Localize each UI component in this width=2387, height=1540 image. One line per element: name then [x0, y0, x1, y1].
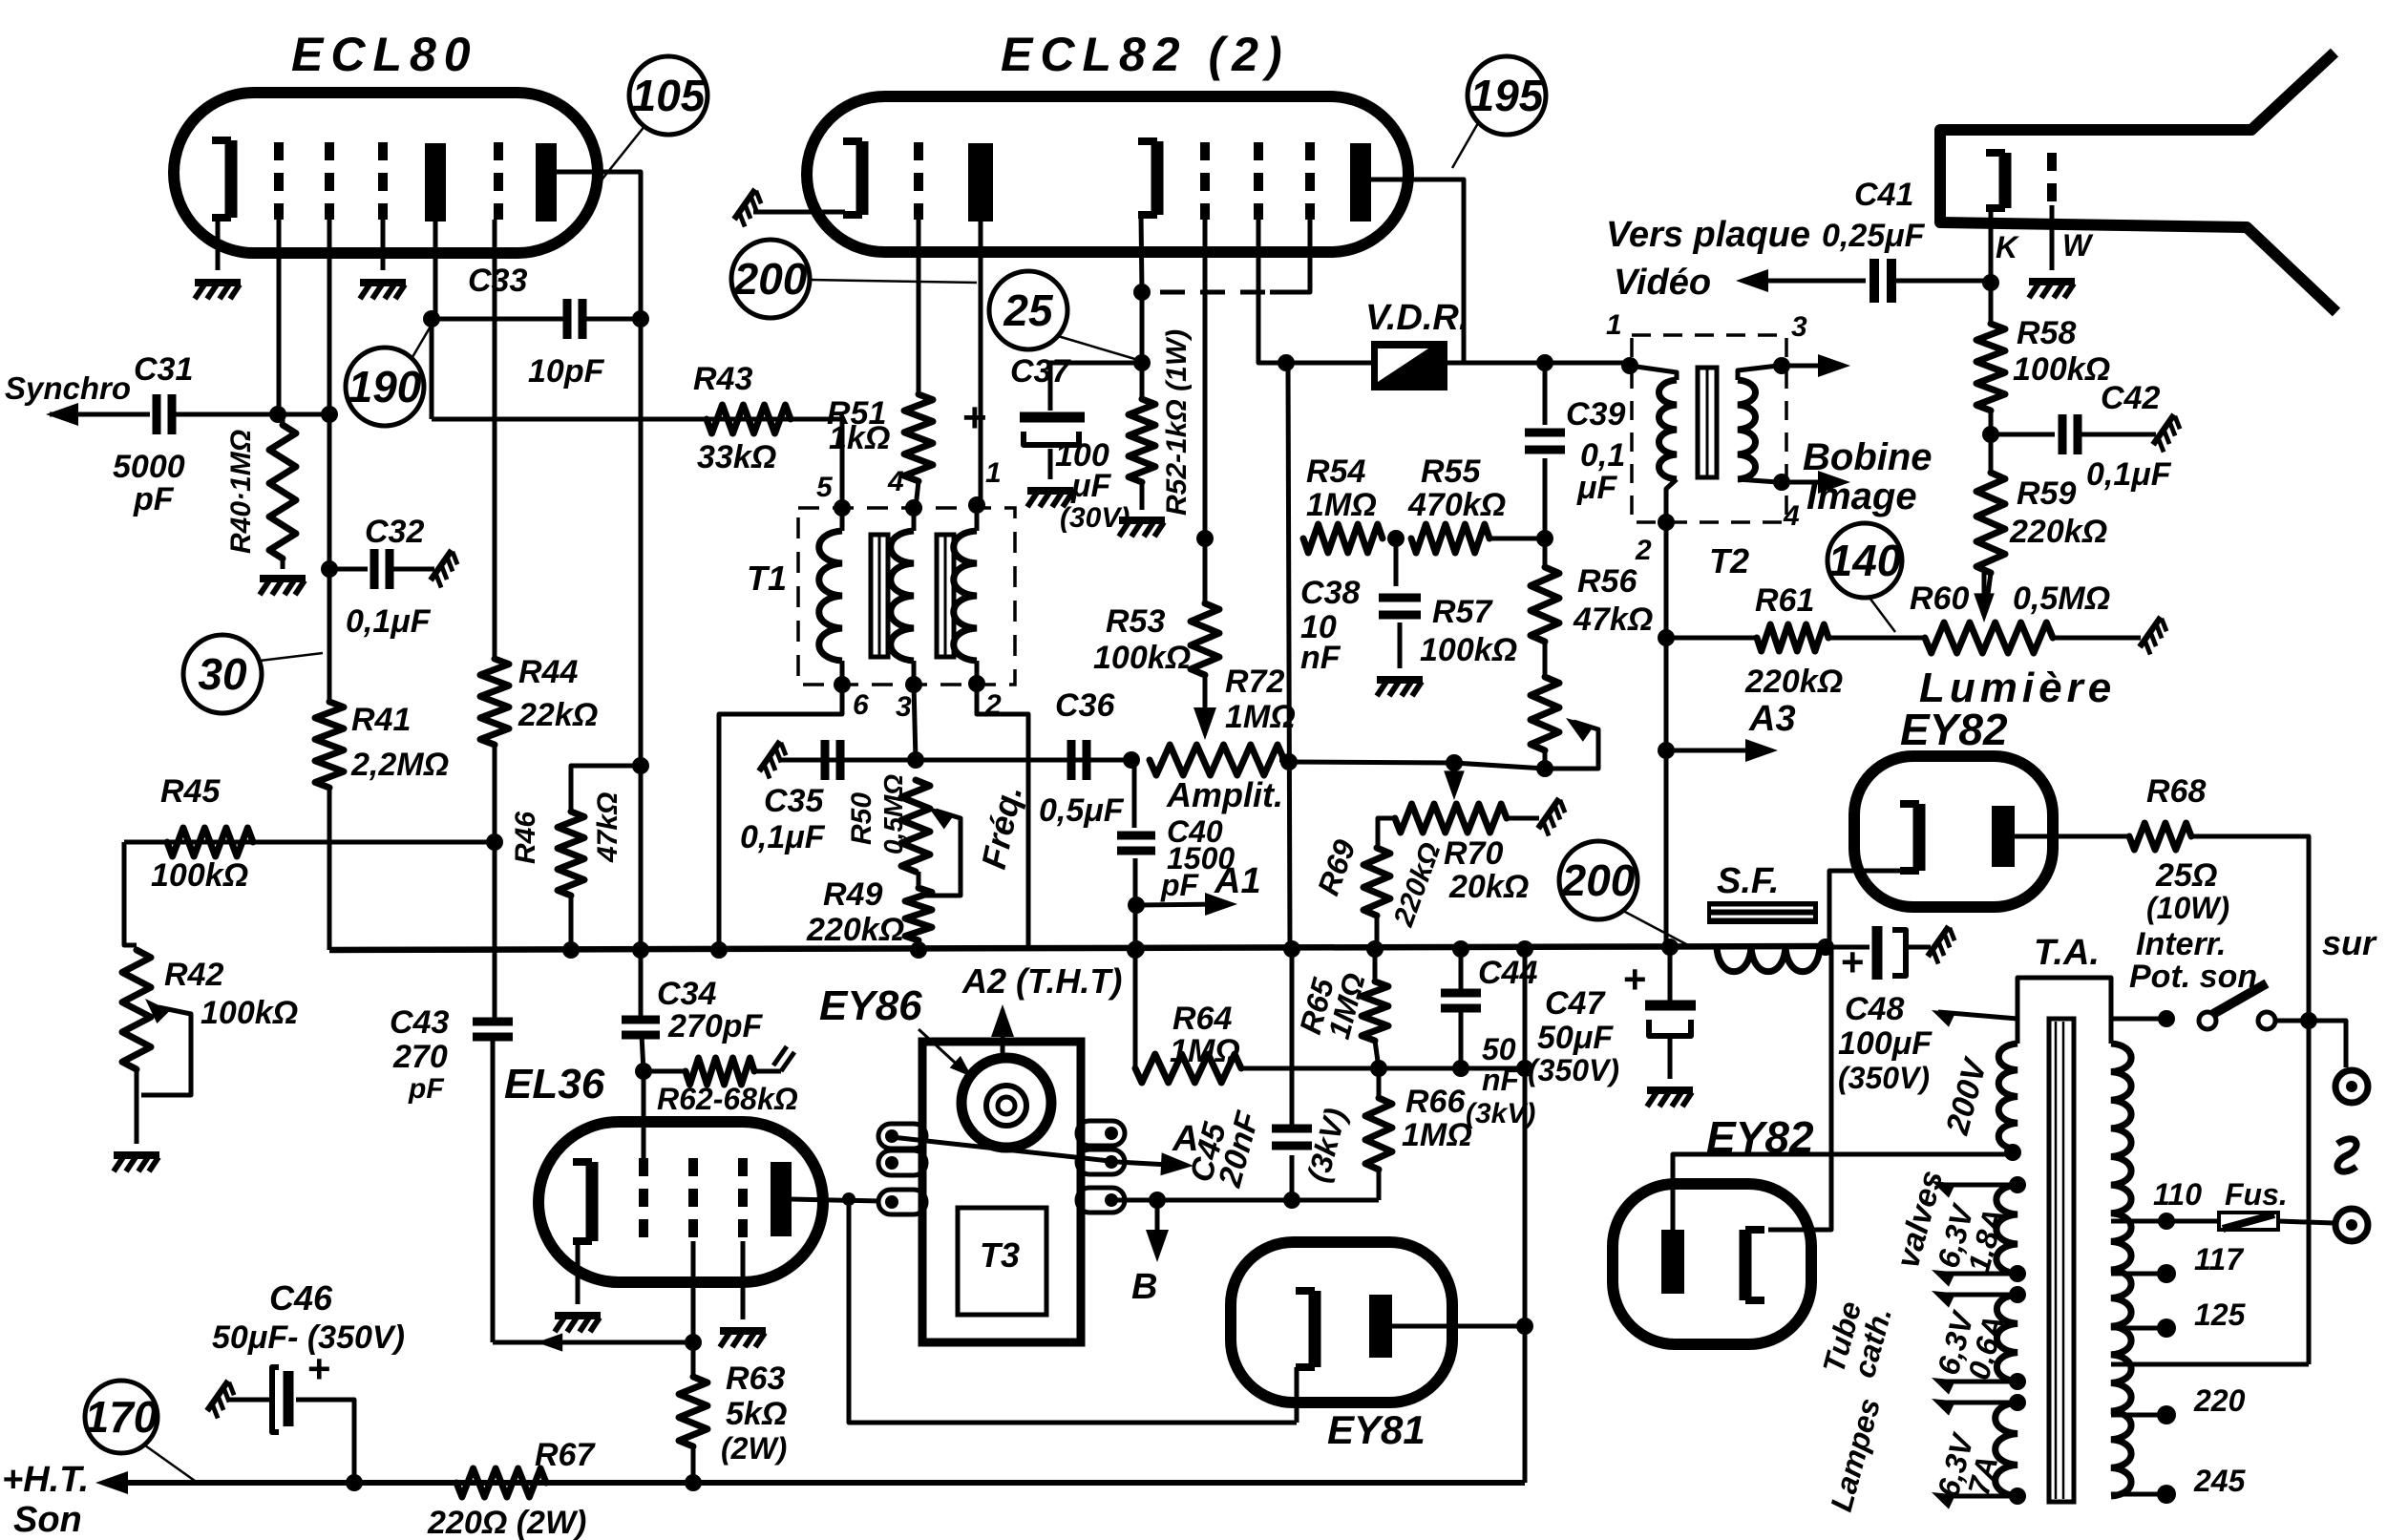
svg-text:R44: R44 [518, 654, 578, 690]
winding 200V [1998, 1044, 2017, 1150]
svg-text:Interr.: Interr. [2136, 926, 2226, 962]
svg-text:0,1: 0,1 [1580, 437, 1625, 474]
wire pot node to R70 rail [1289, 762, 1454, 763]
wire C40 bottom [1133, 858, 1138, 950]
tube V4 EY82 envelope [1613, 1184, 1811, 1344]
resistor R51 [904, 394, 933, 481]
svg-text:1kΩ: 1kΩ [829, 420, 890, 456]
svg-text:117: 117 [2194, 1242, 2245, 1276]
svg-text:Fus.: Fus. [2225, 1177, 2288, 1212]
svg-text:140: 140 [1828, 536, 1902, 585]
arrow T2-4 [1782, 471, 1850, 494]
label C34 [657, 976, 716, 1012]
wire R41 top [327, 569, 332, 702]
wire VDR right [1447, 361, 1630, 366]
node T1-3 [905, 676, 922, 693]
svg-text:R40·1MΩ: R40·1MΩ [225, 430, 257, 554]
svg-text:220kΩ: 220kΩ [806, 912, 904, 948]
wire R59 to R60 arrow [1987, 573, 1991, 601]
node T1-6 bus [710, 941, 728, 959]
ground (ECL80 g3) [360, 283, 406, 299]
wire a1 pin down [979, 222, 983, 503]
wire R64 left [1133, 949, 1138, 1068]
wire V7 g2 pin [691, 1241, 696, 1342]
label T3 [980, 1235, 1020, 1275]
label 6,3V 7A [1931, 1428, 2004, 1500]
label C44 [1478, 955, 1537, 991]
capacitor C40 [1117, 835, 1155, 851]
svg-text:T3: T3 [980, 1235, 1020, 1275]
svg-text:1: 1 [1606, 309, 1622, 341]
svg-text:R49: R49 [823, 876, 882, 913]
svg-text:47kΩ: 47kΩ [592, 792, 623, 863]
wire C39 top lead [1543, 363, 1548, 425]
wire C42 lead [1991, 432, 2055, 437]
svg-text:C44: C44 [1478, 955, 1537, 991]
label K [1996, 230, 2020, 264]
svg-text:270: 270 [392, 1039, 448, 1075]
wire Synchro arrow [50, 412, 150, 417]
label Vers plaque [1606, 215, 1810, 255]
svg-text:Bobine: Bobine [1803, 436, 1933, 478]
wire R61 lead [1666, 636, 1757, 641]
svg-text:R58: R58 [2017, 315, 2076, 351]
wire right rail [1523, 949, 1528, 1483]
node R46 top [632, 757, 649, 774]
wire C46 right [296, 1400, 354, 1483]
wire R43 to T1-5 [840, 419, 845, 508]
winding heater lampes [1996, 1403, 2017, 1496]
tube V7 grid g1 [639, 1158, 648, 1241]
wire C39 to R56 [1543, 458, 1548, 567]
wire tap110 [2111, 1219, 2166, 1224]
pointer 30 [260, 653, 323, 661]
wire a2 to VDR node [1462, 292, 1467, 363]
svg-text:+: + [307, 1346, 331, 1391]
svg-text:nF: nF [1482, 1063, 1521, 1097]
tube V2 cathode k1 [843, 141, 862, 215]
tube V6 EY81 envelope [1231, 1242, 1452, 1403]
label R67 [535, 1437, 596, 1473]
label C43 [390, 1004, 449, 1041]
circle node 170 [85, 1381, 158, 1453]
wire C43 to R63 node [493, 1340, 693, 1345]
wire dashed g4 link [1151, 290, 1265, 295]
label EY81 [1327, 1407, 1426, 1452]
node R46 bus [562, 941, 580, 959]
label C46 value [212, 1319, 405, 1356]
resistor R53 [1191, 603, 1219, 675]
svg-text:EY81: EY81 [1327, 1407, 1426, 1452]
label C46 plus [307, 1346, 331, 1391]
svg-text:200: 200 [733, 254, 808, 304]
svg-text:A3: A3 [1748, 699, 1796, 739]
wire R61-R60 link [1828, 636, 1925, 641]
svg-text:0,5MΩ: 0,5MΩ [2013, 580, 2110, 617]
node R64 bus [1128, 940, 1145, 958]
label R59 [2017, 475, 2076, 512]
capacitor C31 [157, 394, 172, 434]
node C37/R52 [1133, 354, 1151, 371]
label T2 pin4 [1783, 500, 1800, 532]
wire y1119 to rail [1379, 1066, 1525, 1071]
node C33 right [632, 310, 649, 327]
tube V2 anode a2 [1350, 143, 1371, 222]
node R58/R59 [1982, 426, 1999, 443]
label R50 value [878, 774, 908, 854]
resistor R43 [707, 405, 791, 433]
wire R46 bottom [569, 896, 574, 950]
wire T2-2 down [1664, 522, 1669, 947]
label R51 [827, 395, 886, 432]
wire V6 cathode down [1295, 1367, 1299, 1423]
resistor R52 [1129, 363, 1155, 482]
svg-text:C38: C38 [1300, 575, 1360, 611]
resistor R64 [1135, 1054, 1241, 1083]
wire R56 to R57 [1543, 642, 1548, 677]
node R70 arrow [1446, 754, 1463, 771]
node hl bot [2009, 1487, 2026, 1505]
label Bobine Image [1803, 436, 1933, 517]
svg-text:C32: C32 [365, 514, 424, 550]
wire R45 rail [124, 840, 495, 845]
svg-text:R52-1kΩ (1W): R52-1kΩ (1W) [1161, 329, 1193, 516]
CRT cathode pin [1989, 208, 1994, 280]
node tap125 [2157, 1318, 2176, 1338]
wire V7 g3 pin [741, 1241, 746, 1319]
label R43 [693, 361, 752, 397]
wire R55 right [1489, 537, 1545, 541]
label C48 [1845, 991, 1904, 1027]
wire R66 bottom link [1292, 1198, 1379, 1203]
node R63 bus [685, 1474, 702, 1491]
svg-text:0,5MΩ: 0,5MΩ [878, 774, 908, 854]
tube V1 anode a2 [536, 143, 557, 222]
label T1 pin5 [816, 472, 834, 503]
wire V6 anode out [1392, 1324, 1525, 1329]
capacitor C34 [622, 1020, 660, 1035]
wire sec top tap [2111, 1017, 2166, 1022]
core T1 b [937, 535, 954, 657]
tube V3 cathode [1900, 804, 1919, 871]
label R42 value [201, 995, 298, 1031]
ground (R70) [1538, 798, 1570, 835]
tube V7 cathode [573, 1162, 592, 1241]
wire C45 bottom [1290, 1155, 1295, 1200]
svg-text:R63: R63 [726, 1361, 785, 1397]
svg-text:C42: C42 [2101, 380, 2160, 416]
arrow 200V lead [1928, 1002, 1955, 1026]
node bus C34 [632, 941, 649, 959]
svg-text:4: 4 [1783, 500, 1800, 532]
label Son [13, 1500, 82, 1540]
ground (C32) [431, 550, 462, 587]
wire hv top arrow [1928, 1173, 2017, 1197]
node C40 bus [1127, 941, 1144, 959]
wire T1-3 stub [912, 661, 917, 685]
tube V1 cathode [212, 140, 231, 218]
core T1 a [871, 535, 888, 657]
node C38 top [1387, 530, 1405, 547]
wire anode a2 exit [1371, 179, 1464, 292]
node R45/x518 [486, 833, 503, 851]
arrow Synchro [46, 403, 78, 426]
label R44 value [518, 697, 598, 733]
resistor R59 [1976, 473, 2005, 573]
node R55 right [1536, 530, 1553, 547]
wire C38 bottom [1398, 622, 1403, 668]
node R61 tap [1658, 629, 1675, 646]
wire R40 top [281, 414, 285, 425]
component V.D.R. [1371, 341, 1447, 390]
node T1-5 [834, 499, 851, 517]
svg-text:33kΩ: 33kΩ [697, 439, 776, 475]
svg-text:C47: C47 [1545, 985, 1606, 1022]
wire pin a1 down [433, 222, 438, 322]
capacitor C32 [374, 549, 390, 589]
svg-text:105: 105 [632, 71, 707, 120]
label 6,3V 0,6A [1931, 1306, 2011, 1382]
wire R58 bottom [1989, 411, 1994, 434]
wire C40 top lead [1132, 762, 1137, 828]
label R70 [1444, 835, 1503, 872]
wire T1-6 link [719, 685, 842, 950]
label R56 value [1573, 601, 1653, 638]
node R50 top [907, 751, 924, 769]
svg-text:1: 1 [985, 457, 1002, 489]
node C32 [321, 560, 338, 578]
arrow R57 wiper [1560, 710, 1594, 742]
svg-text:10pF: 10pF [528, 353, 605, 390]
circle node 25 [989, 271, 1067, 349]
wire R60 right [2053, 636, 2141, 641]
wire R50 wiper loop [919, 811, 961, 896]
node hl top [2009, 1394, 2026, 1411]
ground (C42) [2153, 414, 2185, 452]
label C45 3kV [1300, 1105, 1353, 1186]
label +H.T. [2, 1460, 89, 1500]
wire C44 bot [1459, 1008, 1464, 1068]
svg-text:R67: R67 [535, 1437, 596, 1473]
label T2 [1709, 541, 1749, 580]
resistor R68 [2129, 823, 2191, 850]
svg-text:220kΩ: 220kΩ [2009, 514, 2107, 550]
svg-text:220kΩ: 220kΩ [1744, 664, 1843, 700]
label Fus. [2225, 1177, 2288, 1212]
circle node 190 [346, 348, 424, 426]
label 117 [2194, 1242, 2245, 1276]
svg-text:C31: C31 [134, 351, 193, 388]
label R51 value [829, 420, 890, 456]
wire C43 bottom [491, 1037, 496, 1342]
svg-text:5kΩ: 5kΩ [726, 1396, 787, 1432]
svg-text:30: 30 [198, 649, 247, 699]
label Freq [974, 782, 1029, 873]
node pot/VDR [1280, 753, 1298, 770]
transformer T2 box [1632, 335, 1786, 522]
svg-text:100kΩ: 100kΩ [151, 857, 248, 894]
tube V7 grid g2 [688, 1158, 698, 1241]
svg-text:R62-68kΩ: R62-68kΩ [657, 1082, 798, 1116]
wire V3 anode to R68 [2015, 834, 2129, 839]
label Lampes [1824, 1395, 1887, 1515]
wire C37 down [1048, 449, 1053, 479]
label R60 [1910, 580, 1969, 617]
wire hv bot arrow [1928, 1262, 2017, 1286]
node tap220 [2157, 1405, 2176, 1424]
svg-text:Amplit.: Amplit. [1166, 775, 1283, 814]
node hv top [2009, 1176, 2026, 1193]
wire x518 down to C43 [493, 842, 497, 1010]
core T2 [1698, 368, 1717, 477]
wire 200V bottom [2016, 1150, 2020, 1154]
node bus rail-right [1516, 940, 1533, 958]
circle node 200b [1559, 841, 1637, 919]
wire R62 right tick [754, 1046, 794, 1071]
wire R51 bottom [916, 481, 919, 508]
wire T2 coil to pin2 [1666, 479, 1677, 522]
ground (R60) [2140, 617, 2171, 654]
label C41 value [1822, 218, 1926, 254]
label C40 [1167, 814, 1223, 849]
wire T1-3 down [914, 685, 916, 760]
node bus C45 [1283, 940, 1300, 958]
wire mains rail [2115, 1362, 2309, 1367]
tube V1 grid g4 [494, 142, 503, 220]
label R63 value [721, 1396, 787, 1466]
node R54 left [1196, 530, 1214, 547]
circle node 105 [629, 56, 708, 135]
wire tap117 [2111, 1272, 2166, 1276]
svg-text:1MΩ: 1MΩ [1225, 699, 1296, 735]
wire R57 bottom [1543, 750, 1548, 769]
node grid2 line [321, 406, 338, 423]
wire T3 R3 out [1117, 1198, 1292, 1203]
svg-text:4: 4 [887, 466, 904, 497]
ground (EL36 g3) [720, 1331, 766, 1347]
svg-text:R41: R41 [351, 702, 411, 738]
node tap117 [2157, 1264, 2176, 1283]
pointer 25 [1058, 336, 1138, 360]
svg-text:Vidéo: Vidéo [1614, 263, 1711, 303]
wire R70 right [1507, 816, 1539, 821]
svg-text:(10W): (10W) [2146, 891, 2229, 925]
node T1-1 [968, 496, 985, 514]
label R55 [1421, 454, 1481, 490]
svg-text:220: 220 [2193, 1383, 2246, 1418]
resistor R58 [1976, 324, 2005, 411]
svg-text:C48: C48 [1845, 991, 1904, 1027]
capacitor C46 elco [272, 1367, 288, 1432]
tube V7 grid g3 [738, 1158, 748, 1241]
svg-text:100kΩ: 100kΩ [201, 995, 298, 1031]
label R67 value [427, 1505, 586, 1540]
svg-text:R53: R53 [1106, 603, 1165, 640]
tube V4 cathode [1745, 1230, 1764, 1300]
circle node 140 [1827, 523, 1902, 598]
svg-text:S.F.: S.F. [1717, 861, 1779, 901]
label T2 pin3 [1791, 311, 1807, 343]
coil T1 tertiary [954, 531, 977, 661]
coil T1 secondary [891, 531, 914, 661]
label T1 pin2 [984, 689, 1002, 721]
capacitor C42 [2062, 414, 2078, 454]
tube V1 ECL80 envelope [174, 93, 598, 253]
node R57 bottom [1536, 760, 1553, 777]
label R59 value [2009, 514, 2107, 550]
resistor R66 [1365, 1098, 1392, 1170]
tube V2 grid g2 [1200, 142, 1210, 220]
node hv bot [2009, 1265, 2026, 1282]
svg-text:C46: C46 [269, 1278, 333, 1318]
label R49 value [806, 912, 904, 948]
coil T2 primary [1658, 380, 1677, 479]
ground (C48) [1928, 926, 1959, 963]
label EY86 [819, 982, 922, 1029]
wire A1 arrow [1136, 904, 1230, 905]
T3 loop R2 [1077, 1150, 1125, 1174]
wire HT bus [103, 1480, 1525, 1486]
wire C37 top link [1050, 363, 1142, 411]
capacitor C45 [1272, 1129, 1312, 1146]
label W [2062, 228, 2094, 263]
wire R49 bottom [917, 940, 921, 950]
choke S.F. coil [1717, 947, 1820, 972]
wire pin g1 down [277, 220, 282, 414]
svg-text:R43: R43 [693, 361, 752, 397]
node rail EY81 [1516, 1318, 1533, 1335]
wire R70 left [1378, 818, 1395, 848]
wire C43 top [493, 950, 497, 1022]
pointer 105 [596, 125, 645, 187]
label R41 value [350, 747, 449, 783]
svg-text:170: 170 [85, 1392, 158, 1442]
node B stem [842, 1192, 856, 1206]
wire R53 top [1203, 538, 1208, 603]
resistor R69 [1363, 848, 1390, 916]
tube V2 anode a1 [968, 143, 993, 222]
svg-text:Vers plaque: Vers plaque [1606, 215, 1810, 255]
label C47 plus [1623, 957, 1647, 1002]
wire g4 pin down [1270, 220, 1310, 292]
svg-text:EY86: EY86 [819, 982, 922, 1029]
wire C32 left lead [329, 567, 368, 572]
resistor R49 [905, 872, 932, 940]
capacitor C36 [1071, 740, 1087, 780]
label C39 value [1576, 437, 1625, 506]
CRT grid pin [2050, 205, 2055, 270]
arrow A2 [991, 1004, 1014, 1037]
resistor R40 [269, 425, 296, 559]
label valves [1890, 1167, 1951, 1272]
svg-text:100kΩ: 100kΩ [1420, 632, 1517, 668]
wire T2-3 link [1738, 366, 1778, 380]
wire ht bot arrow [1928, 1370, 2017, 1394]
wire V7 g1 up [642, 1071, 646, 1158]
wire k2 pin down [1141, 215, 1142, 291]
tube V1 grid g1 [274, 142, 284, 220]
wire A arrow [1117, 1162, 1186, 1166]
node bus C44 [1452, 940, 1469, 958]
node R62 [635, 1063, 652, 1080]
wire T1-1 stub [975, 505, 980, 531]
wire x671 down [639, 319, 644, 764]
label C35 value [740, 819, 826, 855]
label R57 value [1420, 632, 1517, 668]
wire g1 pin down [917, 220, 921, 394]
wire R64 right [1241, 1066, 1379, 1071]
wire C33 right [582, 317, 641, 322]
